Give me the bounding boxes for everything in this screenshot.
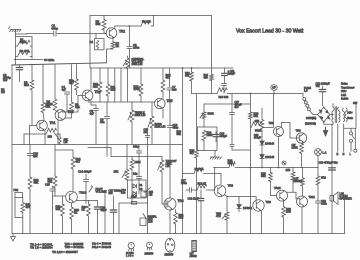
label mains <box>341 83 355 101</box>
wire <box>169 145 171 199</box>
wire <box>15 198 23 218</box>
svg-text:A5582: A5582 <box>190 255 198 258</box>
wire <box>183 173 195 175</box>
svg-text:56R: 56R <box>261 174 266 178</box>
transistor TR8 <box>269 121 284 137</box>
capacitor C7 <box>167 68 177 102</box>
resistor R9 <box>65 65 80 119</box>
resistor R26b <box>228 159 236 168</box>
wire <box>301 207 303 234</box>
wire <box>162 109 164 118</box>
svg-text:LIN: LIN <box>166 164 170 168</box>
svg-text:R20 1K: R20 1K <box>195 167 204 171</box>
potentiometer VR9 <box>200 104 214 127</box>
resistor R2 <box>16 49 33 57</box>
transistor TR1 <box>37 120 56 131</box>
wire bus <box>235 167 318 169</box>
capacitor C14 <box>78 170 92 204</box>
svg-text:1N4148: 1N4148 <box>265 142 275 146</box>
wire <box>90 68 92 90</box>
resistor R27 <box>251 122 262 133</box>
svg-text:2N3053: 2N3053 <box>145 253 154 256</box>
capacitor C19a <box>229 94 242 151</box>
wire <box>355 105 357 128</box>
jack OP1 <box>271 85 277 90</box>
svg-text:8n2: 8n2 <box>172 88 177 92</box>
capacitor C18b <box>131 196 148 204</box>
svg-text:C18 22µF: C18 22µF <box>188 197 200 201</box>
wire <box>273 94 275 128</box>
potentiometer VR1 <box>123 56 144 102</box>
resistor R6 <box>141 20 151 27</box>
label SW1 <box>353 101 358 105</box>
svg-text:R22 1K: R22 1K <box>198 182 207 186</box>
svg-text:680p: 680p <box>173 126 179 130</box>
wire <box>220 174 222 185</box>
wire bus <box>12 63 107 65</box>
capacitor C8 <box>90 105 99 145</box>
svg-text:TR1: TR1 <box>50 121 56 125</box>
wire <box>273 90 275 93</box>
ground arrow G3 <box>11 234 16 242</box>
fuse FS1 <box>303 86 318 115</box>
capacitor C9 <box>100 102 110 145</box>
chassis arrow <box>323 127 328 136</box>
svg-text:FS1: FS1 <box>14 188 19 192</box>
svg-text:D2: D2 <box>139 187 143 191</box>
svg-text:240V(50): 240V(50) <box>306 117 316 120</box>
resistor R13b <box>185 67 193 93</box>
transformer T1 <box>330 104 347 125</box>
resistor R7 <box>107 38 120 63</box>
svg-text:TR12: TR12 <box>79 191 87 195</box>
transistor TR9 <box>296 129 307 144</box>
svg-text:Mains: Mains <box>341 83 348 86</box>
svg-text:L.A: L.A <box>323 151 327 155</box>
svg-text:220µF: 220µF <box>228 72 236 76</box>
svg-text:10n: 10n <box>100 120 105 124</box>
resistor R16a <box>46 128 57 138</box>
wire <box>338 198 345 233</box>
svg-text:TR9: TR9 <box>266 200 272 204</box>
transistor TR11 <box>297 195 316 207</box>
svg-text:100R: 100R <box>292 146 298 150</box>
svg-text:1K: 1K <box>74 211 78 215</box>
svg-text:1K: 1K <box>82 208 86 212</box>
svg-text:22µ: 22µ <box>133 172 138 176</box>
svg-text:TR2: TR2 <box>119 30 125 34</box>
wire <box>14 58 55 62</box>
legend text <box>30 242 112 254</box>
wire <box>227 196 256 198</box>
svg-text:500R: 500R <box>208 112 214 116</box>
resistor R31 <box>21 198 31 234</box>
resistor R20 <box>194 167 221 174</box>
resistor R28 <box>292 143 304 168</box>
wire <box>118 203 120 234</box>
resistor R27b <box>255 119 264 130</box>
wire bus <box>214 167 230 169</box>
resistor R34 <box>82 204 91 234</box>
resistor R4 <box>41 65 50 120</box>
wire <box>227 93 303 95</box>
capacitor C18c <box>188 190 204 234</box>
svg-text:1.5: 1.5 <box>304 89 308 93</box>
svg-text:2µ2: 2µ2 <box>33 154 38 158</box>
wire bus <box>12 144 183 146</box>
svg-text:LIN: LIN <box>64 141 68 144</box>
svg-text:100K LIN: 100K LIN <box>155 125 166 129</box>
legend TO3 pinout <box>165 238 175 256</box>
wire <box>106 145 108 157</box>
svg-text:TR 9,10 = 2N3055T: TR 9,10 = 2N3055T <box>52 250 78 254</box>
wire <box>104 190 106 234</box>
svg-text:1K5: 1K5 <box>286 168 291 172</box>
svg-text:100K: 100K <box>135 160 141 164</box>
svg-text:68K: 68K <box>34 181 39 185</box>
wire <box>76 201 89 205</box>
resistor R17 <box>48 145 57 197</box>
capacitor C10b <box>144 128 150 145</box>
ground G2 <box>210 151 221 160</box>
potentiometer VR8 <box>216 212 229 234</box>
svg-text:TR 7,8 = 2N3054: TR 7,8 = 2N3054 <box>30 246 53 250</box>
wire <box>89 200 98 202</box>
wire <box>44 131 46 145</box>
wire <box>169 210 171 234</box>
resistor R12 <box>134 68 143 102</box>
svg-text:TR6: TR6 <box>178 199 184 203</box>
svg-text:75v: 75v <box>316 84 321 88</box>
label <box>177 131 182 137</box>
svg-text:R15 182: R15 182 <box>219 95 229 99</box>
svg-text:4µ7: 4µ7 <box>62 88 67 92</box>
svg-text:TR6 = BC212L: TR6 = BC212L <box>65 245 85 249</box>
resistor R1 <box>16 34 33 59</box>
diode box D1 D2 <box>128 180 147 198</box>
capacitor C18 <box>213 131 227 142</box>
potentiometer VR2 <box>128 102 145 145</box>
svg-text:15K: 15K <box>114 170 119 174</box>
svg-text:100K: 100K <box>207 133 213 137</box>
svg-text:1K5: 1K5 <box>228 161 233 165</box>
capacitor C22 <box>315 199 327 234</box>
svg-text:470µF: 470µF <box>254 137 262 140</box>
svg-text:TR11: TR11 <box>309 195 316 199</box>
svg-text:470: 470 <box>204 76 209 79</box>
wire <box>52 196 54 234</box>
potentiometer VR6 <box>158 157 168 205</box>
legend TO92 pinout <box>126 242 134 257</box>
capacitor C20 <box>319 161 339 171</box>
svg-text:R2 47K: R2 47K <box>20 49 30 53</box>
wire <box>24 134 46 145</box>
svg-text:25v: 25v <box>109 191 114 195</box>
svg-text:22K: 22K <box>93 85 98 89</box>
capacitor C10 <box>167 123 178 145</box>
svg-text:270K: 270K <box>134 87 141 91</box>
wire <box>192 93 218 95</box>
resistor R16 <box>28 177 39 234</box>
label 240v <box>347 112 353 121</box>
svg-text:TR5: TR5 <box>167 99 173 103</box>
wire <box>262 127 274 129</box>
svg-text:TR8: TR8 <box>228 184 234 188</box>
svg-text:22SWG: 22SWG <box>294 180 303 183</box>
svg-text:100n: 100n <box>133 46 140 50</box>
LED box <box>140 214 157 226</box>
svg-text:E: E <box>337 152 339 156</box>
resistor R24 <box>202 131 213 151</box>
wire <box>261 211 263 234</box>
svg-text:C6 100n: C6 100n <box>44 58 55 62</box>
wire <box>147 145 149 234</box>
svg-text:100µF: 100µF <box>220 134 228 138</box>
svg-text:8R2: 8R2 <box>321 176 326 180</box>
svg-text:4K8: 4K8 <box>255 119 260 123</box>
box trim <box>141 188 154 198</box>
wire <box>71 203 73 207</box>
resistor R29b <box>286 168 295 193</box>
wire <box>169 102 171 125</box>
svg-text:TR9: TR9 <box>296 129 302 133</box>
wire <box>211 16 213 75</box>
transistor TR7 <box>214 184 233 197</box>
resistor R31a <box>316 168 326 202</box>
svg-text:4K7: 4K7 <box>69 81 74 85</box>
wire <box>59 33 106 35</box>
legend transformer OT <box>190 241 198 259</box>
resistor R13 <box>161 68 171 98</box>
svg-text:2K2: 2K2 <box>48 136 53 139</box>
speaker LS1 <box>330 192 352 205</box>
capacitor C11b <box>133 157 142 195</box>
wire <box>120 68 122 102</box>
node B <box>282 161 286 165</box>
svg-text:L1/8: L1/8 <box>148 220 153 223</box>
svg-text:1K: 1K <box>116 44 120 48</box>
svg-text:R6 1K: R6 1K <box>142 20 150 24</box>
svg-text:56K: 56K <box>177 133 182 136</box>
wire <box>115 26 141 29</box>
capacitor C4 <box>62 85 70 112</box>
wire <box>53 195 66 197</box>
svg-text:100K: 100K <box>20 40 27 44</box>
svg-text:10v: 10v <box>3 78 8 82</box>
transistor TR3 <box>55 110 74 121</box>
wire <box>63 95 85 112</box>
inductor L1 <box>294 168 305 197</box>
transistor TR10 <box>274 186 288 201</box>
wire <box>89 16 91 69</box>
transistor TR2 <box>106 28 125 39</box>
wire <box>182 67 184 233</box>
wire <box>324 122 332 124</box>
svg-text:680p: 680p <box>133 145 139 149</box>
wire mains N <box>343 124 345 152</box>
wire <box>261 108 263 120</box>
wire <box>214 168 216 191</box>
svg-text:100n: 100n <box>321 202 327 206</box>
capacitor C26 <box>94 201 107 234</box>
diode D5 <box>260 155 275 160</box>
potentiometer VR5 <box>114 145 129 181</box>
svg-text:2.5A: 2.5A <box>341 94 346 97</box>
svg-text:470K: 470K <box>47 102 54 106</box>
diode D3 <box>237 197 253 213</box>
svg-text:2N3055: 2N3055 <box>165 254 174 257</box>
wire <box>224 195 227 212</box>
box R4a <box>90 34 105 50</box>
wire <box>286 192 299 199</box>
label <box>305 117 316 126</box>
svg-text:L e b c: L e b c <box>126 255 134 258</box>
wire <box>282 123 300 139</box>
wire mains E <box>337 124 339 152</box>
transistor TR9b <box>253 200 271 211</box>
wire <box>232 149 250 151</box>
wire <box>57 121 59 145</box>
resistor R30 <box>282 201 292 234</box>
wire <box>344 127 356 129</box>
wire bus <box>88 101 155 103</box>
svg-text:4µ7: 4µ7 <box>90 112 95 116</box>
wire <box>30 126 37 145</box>
resistor R8 <box>47 65 57 111</box>
svg-text:N: N <box>343 152 345 156</box>
capacitor C27 <box>109 189 122 234</box>
svg-text:47R: 47R <box>216 214 221 218</box>
wire <box>110 148 112 157</box>
svg-text:4K7: 4K7 <box>166 76 171 80</box>
diode D4 <box>260 141 275 146</box>
svg-text:TR8: TR8 <box>269 121 275 125</box>
wire <box>278 137 280 169</box>
svg-text:240v: 240v <box>347 112 353 115</box>
pot FOOT VOLUME <box>89 185 107 193</box>
legend TO92 pinout 2 <box>145 242 154 255</box>
svg-text:10K: 10K <box>75 105 80 109</box>
wire ground bus <box>12 233 345 235</box>
wire V+ top bus <box>90 15 212 17</box>
label <box>254 134 262 140</box>
svg-text:560p: 560p <box>52 26 59 30</box>
svg-text:D5,6 = IN4148: D5,6 = IN4148 <box>92 245 111 249</box>
svg-text:D1: D1 <box>139 183 143 187</box>
capacitor C2 <box>3 65 23 83</box>
svg-text:250K LIN: 250K LIN <box>132 62 143 66</box>
capacitor C1 <box>52 24 60 37</box>
resistor R4b <box>69 65 78 96</box>
svg-text:100n: 100n <box>181 181 187 185</box>
svg-text:Switch: Switch <box>341 98 349 101</box>
box feedback <box>198 127 218 151</box>
wire bus <box>204 103 250 105</box>
svg-text:C25: C25 <box>45 183 50 187</box>
svg-text:Vox Escort Lead 30 - 30 Watt: Vox Escort Lead 30 - 30 Watt <box>236 29 304 35</box>
svg-text:LIN: LIN <box>149 193 153 196</box>
label <box>121 188 126 195</box>
svg-text:10n: 10n <box>121 191 126 195</box>
svg-text:1R5: 1R5 <box>286 210 291 214</box>
svg-text:50c/s: 50c/s <box>347 117 353 120</box>
transistor TR4 <box>82 90 101 101</box>
wire <box>91 101 96 105</box>
svg-text:39K: 39K <box>96 22 101 26</box>
svg-text:Transformer: Transformer <box>341 86 355 89</box>
transistor TR12 <box>66 191 87 203</box>
resistor R15 <box>217 88 229 99</box>
svg-text:OP: OP <box>272 87 276 90</box>
transistor TR6 <box>164 198 184 210</box>
resistor R3 <box>24 65 34 126</box>
pot label <box>166 159 178 168</box>
capacitor C17 <box>181 179 197 193</box>
capacitor C3 <box>127 43 140 68</box>
svg-text:1N4148: 1N4148 <box>265 155 275 159</box>
wire <box>331 124 333 233</box>
resistor R22 <box>197 182 215 191</box>
svg-text:3K3: 3K3 <box>24 83 29 87</box>
wire <box>261 130 263 168</box>
wire <box>55 110 58 112</box>
wire <box>255 197 257 203</box>
svg-text:6K8: 6K8 <box>179 216 184 220</box>
resistor R29 <box>261 168 277 196</box>
bridge rectifier BR1 <box>318 106 330 122</box>
potentiometer VR3 <box>148 102 165 145</box>
svg-text:4K7: 4K7 <box>190 151 195 155</box>
resistor R32 <box>56 196 65 234</box>
wire <box>88 147 111 149</box>
svg-text:TR10: TR10 <box>274 186 281 190</box>
svg-text:56K: 56K <box>254 114 259 118</box>
wire <box>16 33 54 36</box>
ground G1 <box>9 27 22 35</box>
lamp PL1 <box>315 149 327 168</box>
wire <box>111 156 162 158</box>
resistor R25 <box>190 94 199 234</box>
wire mains L <box>354 128 357 152</box>
label <box>1 88 6 95</box>
capacitor C11 <box>222 68 236 84</box>
wire left rail <box>12 59 16 234</box>
resistor R19 <box>130 157 141 204</box>
svg-text:47K: 47K <box>26 205 31 209</box>
svg-text:4K7: 4K7 <box>76 160 81 164</box>
wire <box>129 25 131 46</box>
resistor R10 <box>93 68 102 102</box>
svg-text:10K: 10K <box>56 207 61 211</box>
transistor TR5 <box>155 98 173 109</box>
resistor R26 <box>248 94 258 234</box>
resistor R33 <box>70 207 80 234</box>
capacitor C23 <box>316 82 331 106</box>
capacitor C25 <box>45 183 55 197</box>
resistor R21 <box>174 210 184 234</box>
potentiometer VR4 <box>55 133 69 145</box>
resistor R18 <box>71 150 81 191</box>
switch SW1 <box>350 128 355 151</box>
resistor R5 <box>96 16 107 34</box>
wire <box>55 149 73 151</box>
resistor R14b <box>204 74 214 94</box>
wire <box>114 68 116 102</box>
svg-text:C19 4700µF 50v: C19 4700µF 50v <box>319 161 339 165</box>
resistor R11 <box>106 68 116 102</box>
capacitor C12 <box>221 84 226 94</box>
svg-text:1N4001: 1N4001 <box>243 206 253 210</box>
